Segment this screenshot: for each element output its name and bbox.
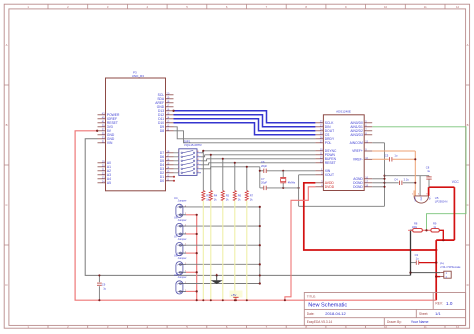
svg-text:+5V: +5V [231, 293, 236, 297]
svg-text:Jumper: Jumper [178, 199, 187, 203]
svg-text:REV:: REV: [435, 302, 442, 306]
svg-text:1: 1 [185, 244, 186, 246]
svg-text:Sheet:: Sheet: [419, 312, 428, 316]
svg-text:1: 1 [185, 282, 186, 284]
svg-text:12: 12 [456, 5, 460, 9]
svg-text:20pF: 20pF [261, 181, 267, 185]
svg-text:C9: C9 [102, 282, 106, 286]
svg-text:3: 3 [178, 159, 179, 161]
svg-text:1u: 1u [394, 153, 397, 157]
svg-text:P4: P4 [440, 261, 444, 265]
svg-text:D8: D8 [160, 129, 164, 133]
svg-text:4: 4 [178, 163, 179, 165]
svg-text:UNO_R3: UNO_R3 [132, 74, 145, 78]
svg-text:ADS1240E: ADS1240E [336, 110, 351, 114]
svg-text:C3: C3 [415, 253, 419, 257]
svg-text:DVDD: DVDD [325, 185, 335, 189]
svg-text:2: 2 [185, 252, 186, 254]
svg-text:C: C [5, 203, 7, 207]
svg-text:2.2u: 2.2u [404, 177, 410, 181]
svg-text:TITLE:: TITLE: [307, 295, 316, 299]
svg-text:POL: POL [325, 141, 332, 145]
svg-text:C: C [467, 203, 469, 207]
svg-text:VQG15-08TR: VQG15-08TR [184, 143, 202, 147]
svg-text:Date:: Date: [307, 312, 315, 316]
svg-text:1: 1 [177, 226, 178, 228]
svg-text:Jumper: Jumper [178, 237, 187, 241]
svg-text:20pF: 20pF [261, 164, 267, 168]
svg-text:1: 1 [177, 264, 178, 266]
svg-text:A5: A5 [107, 181, 111, 185]
svg-text:8: 8 [426, 193, 427, 195]
svg-text:11: 11 [197, 171, 199, 173]
svg-text:2.54-1*2PFemale: 2.54-1*2PFemale [440, 265, 461, 269]
svg-text:XOUT: XOUT [325, 173, 334, 177]
svg-text:B: B [467, 123, 469, 127]
svg-text:R4: R4 [214, 194, 218, 198]
svg-text:11: 11 [424, 5, 427, 9]
svg-text:1: 1 [178, 151, 179, 153]
svg-text:C4: C4 [394, 177, 398, 181]
svg-text:Your Name: Your Name [411, 320, 429, 324]
svg-text:100k: 100k [412, 226, 418, 229]
svg-text:6: 6 [178, 171, 179, 173]
svg-text:4MHz: 4MHz [288, 180, 296, 184]
svg-text:12: 12 [197, 167, 199, 169]
svg-text:VREF+: VREF+ [352, 149, 363, 153]
svg-text:1u: 1u [416, 257, 419, 261]
svg-text:Jumper: Jumper [178, 218, 187, 222]
svg-text:2: 2 [185, 271, 186, 273]
svg-text:2018-04-12: 2018-04-12 [325, 311, 346, 316]
svg-text:AIN3/D3: AIN3/D3 [350, 133, 363, 137]
svg-text:DGND: DGND [353, 185, 363, 189]
svg-text:2: 2 [185, 213, 186, 215]
svg-text:1.0: 1.0 [446, 301, 453, 306]
svg-text:13: 13 [197, 163, 199, 165]
svg-text:1: 1 [185, 205, 186, 207]
svg-text:1: 1 [177, 207, 178, 209]
svg-text:D0: D0 [160, 179, 164, 183]
svg-text:1: 1 [412, 193, 413, 195]
svg-text:2: 2 [177, 291, 178, 293]
svg-text:16: 16 [197, 151, 199, 153]
svg-text:B: B [6, 123, 8, 127]
svg-text:A: A [467, 43, 469, 47]
svg-text:AINCOM: AINCOM [350, 141, 363, 145]
svg-text:New Schematic: New Schematic [308, 302, 347, 308]
svg-text:C8: C8 [426, 166, 430, 170]
svg-text:D: D [5, 283, 7, 287]
svg-text:2: 2 [185, 232, 186, 234]
svg-text:VCC: VCC [452, 180, 460, 184]
svg-text:2: 2 [178, 155, 179, 157]
svg-text:1: 1 [177, 284, 178, 286]
svg-text:D: D [467, 283, 469, 287]
svg-text:1/1: 1/1 [435, 311, 441, 316]
svg-text:VREF-: VREF- [353, 158, 363, 162]
svg-text:C7: C7 [261, 177, 265, 181]
svg-text:Jumper: Jumper [178, 256, 187, 260]
svg-text:R6: R6 [238, 194, 242, 198]
svg-text:1: 1 [185, 263, 186, 265]
svg-text:1: 1 [177, 245, 178, 247]
svg-text:R5: R5 [226, 194, 230, 198]
svg-text:R7: R7 [250, 194, 254, 198]
svg-text:RESET: RESET [325, 161, 336, 165]
svg-text:5: 5 [178, 167, 179, 169]
svg-text:VIN: VIN [107, 141, 113, 145]
svg-text:15: 15 [197, 155, 199, 157]
svg-text:VOUT: VOUT [414, 197, 416, 202]
svg-text:C6: C6 [261, 160, 265, 164]
svg-text:Drawn By:: Drawn By: [387, 320, 402, 324]
svg-text:LP2950-N: LP2950-N [435, 200, 448, 204]
svg-text:10: 10 [384, 5, 388, 9]
svg-text:Jumper: Jumper [178, 275, 187, 279]
svg-text:3: 3 [418, 193, 419, 195]
svg-text:2: 2 [185, 290, 186, 292]
svg-text:A: A [6, 43, 8, 47]
svg-text:1: 1 [185, 224, 186, 226]
svg-text:EasyEDA V5.3.14: EasyEDA V5.3.14 [307, 320, 333, 324]
svg-text:14: 14 [197, 159, 199, 161]
svg-text:C5: C5 [385, 153, 389, 157]
svg-text:1u: 1u [103, 287, 106, 291]
svg-text:1u: 1u [427, 169, 430, 173]
